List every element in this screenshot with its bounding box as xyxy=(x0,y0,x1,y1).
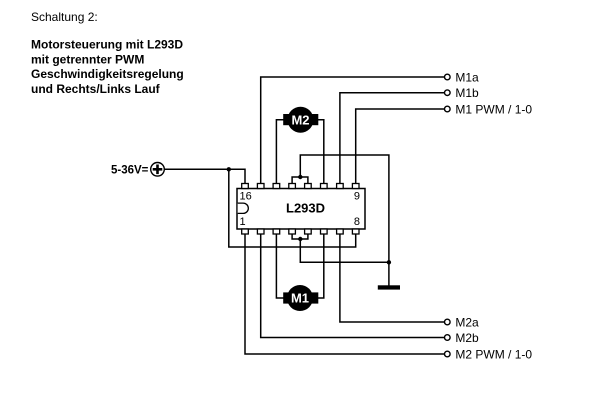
ground xyxy=(378,285,400,289)
svg-text:mit getrennter PWM: mit getrennter PWM xyxy=(31,52,144,66)
terminal M2a xyxy=(445,319,451,325)
motor M1 xyxy=(283,285,318,311)
terminal M2 PWM xyxy=(445,351,451,357)
wire GND top bracket pins 13,12 xyxy=(292,177,308,184)
svg-text:M2b: M2b xyxy=(455,331,479,345)
svg-text:16: 16 xyxy=(240,190,252,202)
description text block xyxy=(31,38,184,96)
svg-text:M2a: M2a xyxy=(455,316,479,330)
pin 9 xyxy=(352,184,359,189)
svg-text:Motorsteuerung mit L293D: Motorsteuerung mit L293D xyxy=(31,38,183,52)
pin 7 xyxy=(337,229,344,234)
wire GND top to rail xyxy=(300,155,389,286)
pin 14 xyxy=(273,184,280,189)
wire GND bottom bracket pins 4,5 xyxy=(292,234,308,240)
pin 8 xyxy=(352,229,359,234)
pin 1 xyxy=(242,229,249,234)
svg-text:M2 PWM / 1-0: M2 PWM / 1-0 xyxy=(455,348,532,362)
wire V+ rail to pin 8 xyxy=(229,169,356,247)
wire pin 15 to terminal M1a xyxy=(261,77,445,184)
svg-text:Geschwindigkeitsregelung: Geschwindigkeitsregelung xyxy=(31,67,184,81)
svg-text:M1 PWM / 1-0: M1 PWM / 1-0 xyxy=(455,103,532,117)
wire pin 1 to terminal M2 PWM xyxy=(245,234,444,355)
svg-text:8: 8 xyxy=(354,216,360,228)
pin 6 xyxy=(321,229,328,234)
wire pin 11 to motor M2 right xyxy=(317,120,324,184)
pin 2 xyxy=(257,229,264,234)
pin 15 xyxy=(257,184,264,189)
pin 12 xyxy=(305,184,312,189)
pin 3 xyxy=(273,229,280,234)
svg-text:M1b: M1b xyxy=(455,86,479,100)
wire pin 3 to motor M1 left xyxy=(276,234,284,299)
pin 16 xyxy=(242,184,249,189)
wire V+ to pin 16 xyxy=(164,169,245,184)
IC notch xyxy=(238,203,249,213)
svg-text:5-36V=: 5-36V= xyxy=(111,165,149,177)
svg-text:1: 1 xyxy=(240,216,246,228)
motor M2 xyxy=(283,107,318,133)
pin 10 xyxy=(337,184,344,189)
pin 4 xyxy=(289,229,296,234)
wire pin 6 to motor M1 right xyxy=(317,234,324,299)
terminal M1b xyxy=(445,90,451,96)
svg-text:L293D: L293D xyxy=(286,200,325,215)
wire pin 9 to terminal M1 PWM xyxy=(356,109,445,184)
junction V+ node xyxy=(227,167,231,171)
power source V+ symbol xyxy=(151,163,165,177)
svg-text:M2: M2 xyxy=(291,112,309,127)
junction GND bottom xyxy=(298,237,302,241)
svg-text:M1a: M1a xyxy=(455,71,479,85)
svg-text:9: 9 xyxy=(354,190,360,202)
pin 11 xyxy=(321,184,328,189)
svg-text:Schaltung 2:: Schaltung 2: xyxy=(31,10,98,24)
terminal M1a xyxy=(445,74,451,80)
svg-text:M1: M1 xyxy=(291,291,309,306)
svg-text:und Rechts/Links Lauf: und Rechts/Links Lauf xyxy=(31,82,161,96)
pin 5 xyxy=(305,229,312,234)
IC U1 L293D body xyxy=(237,189,365,230)
wire pin 14 to motor M2 left xyxy=(276,120,284,184)
terminal M2b xyxy=(445,335,451,341)
junction GND rail xyxy=(387,260,391,264)
pin 13 xyxy=(289,184,296,189)
wire pin 2 to terminal M2b xyxy=(261,234,445,338)
wire GND bottom to rail xyxy=(300,239,389,262)
wire pin 10 to terminal M1b xyxy=(340,93,444,184)
junction GND top xyxy=(298,175,302,179)
terminal M1 PWM xyxy=(445,106,451,112)
wire pin 7 to terminal M2a xyxy=(340,234,444,323)
